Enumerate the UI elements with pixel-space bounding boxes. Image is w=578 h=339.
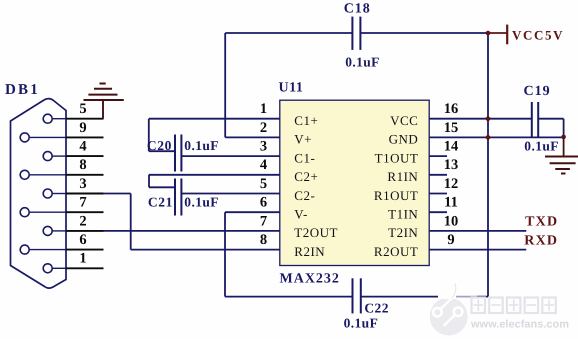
svg-text:6: 6 bbox=[260, 195, 267, 211]
svg-text:16: 16 bbox=[444, 101, 459, 117]
svg-text:C22: C22 bbox=[364, 300, 388, 315]
svg-text:C2-: C2- bbox=[294, 188, 315, 203]
svg-text:0.1uF: 0.1uF bbox=[345, 55, 380, 70]
svg-text:V-: V- bbox=[294, 207, 308, 222]
svg-text:RXD: RXD bbox=[524, 234, 558, 249]
svg-text:VCC: VCC bbox=[390, 113, 418, 128]
svg-text:R2OUT: R2OUT bbox=[374, 244, 418, 259]
svg-text:C21: C21 bbox=[148, 195, 173, 210]
svg-text:14: 14 bbox=[444, 139, 459, 155]
svg-text:C20: C20 bbox=[147, 138, 172, 153]
svg-text:T1IN: T1IN bbox=[388, 207, 418, 222]
svg-text:3: 3 bbox=[260, 139, 267, 155]
svg-text:R1IN: R1IN bbox=[387, 169, 418, 184]
svg-text:GND: GND bbox=[389, 132, 419, 147]
svg-text:9: 9 bbox=[79, 120, 86, 136]
svg-text:0.1uF: 0.1uF bbox=[344, 316, 379, 331]
svg-text:0.1uF: 0.1uF bbox=[184, 138, 219, 153]
svg-text:T2OUT: T2OUT bbox=[294, 225, 338, 240]
svg-text:R1OUT: R1OUT bbox=[374, 188, 418, 203]
svg-text:0.1uF: 0.1uF bbox=[184, 195, 219, 210]
svg-text:4: 4 bbox=[79, 139, 86, 155]
svg-text:T1OUT: T1OUT bbox=[375, 150, 419, 165]
svg-text:C2+: C2+ bbox=[294, 169, 318, 184]
svg-text:V+: V+ bbox=[294, 132, 312, 147]
svg-text:11: 11 bbox=[444, 195, 458, 211]
svg-text:DB1: DB1 bbox=[5, 82, 40, 98]
svg-text:MAX232: MAX232 bbox=[280, 272, 340, 287]
svg-text:15: 15 bbox=[444, 120, 459, 136]
svg-text:3: 3 bbox=[79, 176, 86, 192]
svg-text:12: 12 bbox=[444, 176, 459, 192]
svg-text:9: 9 bbox=[447, 232, 454, 248]
svg-text:8: 8 bbox=[79, 157, 86, 173]
svg-text:C18: C18 bbox=[344, 1, 371, 16]
svg-text:0.1uF: 0.1uF bbox=[524, 139, 559, 154]
svg-text:VCC5V: VCC5V bbox=[512, 28, 564, 43]
svg-text:1: 1 bbox=[260, 101, 267, 117]
svg-text:7: 7 bbox=[79, 195, 86, 211]
svg-text:C1-: C1- bbox=[294, 150, 315, 165]
svg-text:2: 2 bbox=[260, 120, 267, 136]
svg-text:5: 5 bbox=[260, 176, 267, 192]
svg-text:8: 8 bbox=[260, 232, 267, 248]
svg-text:U11: U11 bbox=[279, 81, 304, 96]
svg-text:4: 4 bbox=[260, 157, 267, 173]
svg-text:1: 1 bbox=[79, 251, 86, 267]
svg-text:TXD: TXD bbox=[525, 215, 558, 230]
svg-text:7: 7 bbox=[260, 213, 267, 229]
svg-text:5: 5 bbox=[79, 101, 86, 117]
svg-text:10: 10 bbox=[444, 213, 459, 229]
svg-text:C19: C19 bbox=[524, 84, 551, 99]
svg-text:C1+: C1+ bbox=[294, 113, 318, 128]
svg-text:2: 2 bbox=[79, 213, 86, 229]
svg-text:T2IN: T2IN bbox=[388, 225, 418, 240]
svg-text:R2IN: R2IN bbox=[294, 244, 325, 259]
svg-text:13: 13 bbox=[444, 157, 459, 173]
svg-text:www.elecfans.com: www.elecfans.com bbox=[470, 319, 569, 331]
svg-text:6: 6 bbox=[79, 232, 86, 248]
